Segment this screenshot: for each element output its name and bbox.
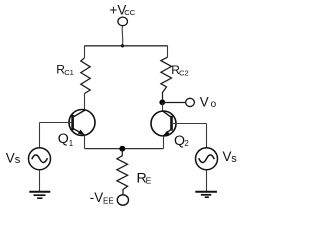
svg-text:2: 2 — [184, 139, 189, 148]
svg-text:1: 1 — [69, 139, 74, 148]
source Vs (left) — [29, 148, 51, 170]
net label +Vcc — [110, 2, 136, 17]
wire left source to ground — [39, 170, 41, 192]
svg-text:CC: CC — [124, 8, 135, 17]
net label Vo — [200, 95, 217, 111]
wire Q2 emitter lead — [163, 136, 165, 149]
wire base corner to left source — [39, 123, 41, 149]
wire base corner to right source — [206, 124, 208, 149]
ground (right) — [195, 192, 217, 197]
svg-text:C1: C1 — [64, 68, 74, 77]
svg-text:Q: Q — [174, 133, 185, 149]
svg-text:s: s — [231, 153, 237, 165]
wire Vcc stem — [121, 26, 124, 46]
reference label Q2 — [174, 133, 189, 149]
wire rail to Rc1 — [84, 46, 86, 58]
svg-text:V: V — [223, 149, 232, 164]
source label Vs (left) — [6, 151, 21, 167]
junction node emitter / Re — [119, 146, 125, 152]
svg-text:V: V — [6, 151, 15, 166]
value label Re — [137, 171, 152, 187]
svg-text:C2: C2 — [179, 69, 189, 78]
resistor Re — [117, 149, 128, 195]
svg-text:s: s — [15, 154, 21, 166]
reference label Q1 — [58, 131, 74, 148]
wire emitter rail — [85, 148, 164, 150]
source label Vs (right) — [223, 149, 238, 165]
transistor Q1 — [69, 110, 95, 136]
wire rail to Rc2 — [167, 46, 169, 58]
wire junction to Q2 collector — [162, 102, 164, 111]
junction node collector Q2 / Vo — [159, 99, 165, 105]
svg-text:EE: EE — [103, 197, 114, 206]
wire Q1 base lead — [40, 122, 73, 124]
svg-text:E: E — [146, 175, 152, 185]
junction node Vcc stem / rail — [121, 44, 124, 47]
resistor Rc2 — [161, 57, 172, 99]
wire Q1 emitter lead — [84, 135, 86, 149]
wire top rail — [85, 45, 168, 47]
wire Rc1 to Q1 collector — [84, 94, 86, 112]
terminal Vo — [186, 98, 195, 106]
source Vs (right) — [196, 148, 218, 170]
svg-text:o: o — [211, 99, 217, 110]
terminal +Vcc — [118, 17, 128, 26]
resistor Rc1 — [81, 58, 90, 94]
value label Rc1 — [56, 62, 74, 77]
ground (left) — [29, 192, 50, 199]
wire Q2 base lead — [172, 123, 207, 125]
svg-text:-V: -V — [90, 190, 103, 205]
transistor Q2 — [151, 111, 176, 136]
svg-text:V: V — [200, 95, 209, 110]
net label -Vee — [90, 190, 114, 206]
svg-text:Q: Q — [58, 131, 69, 147]
value label Rc2 — [171, 63, 188, 78]
wire right source to ground — [206, 170, 208, 192]
terminal -Vee — [117, 195, 128, 205]
wire junction to Vo terminal — [162, 102, 186, 104]
